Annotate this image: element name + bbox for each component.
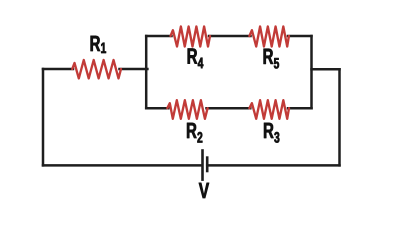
label R3 xyxy=(264,123,279,143)
wire R1 to left bus xyxy=(120,68,148,71)
wire left vertical xyxy=(42,69,45,165)
resistor R5 xyxy=(249,27,289,47)
wire bottom branch middle xyxy=(207,107,251,110)
wire left bus vertical xyxy=(145,36,148,108)
label R1 xyxy=(91,36,106,53)
wire bottom right segment xyxy=(207,164,339,167)
resistor R3 xyxy=(249,100,289,119)
wire bottom branch right xyxy=(288,107,312,110)
wire bottom branch left xyxy=(146,107,168,110)
label R5 xyxy=(264,49,279,69)
wire bottom left segment xyxy=(43,164,201,167)
resistor R2 xyxy=(167,100,207,119)
wire top branch left xyxy=(146,35,171,38)
battery V: short plate xyxy=(206,156,209,172)
wire right mid connector xyxy=(312,68,340,71)
wire top-left to R1 xyxy=(43,68,73,71)
label V xyxy=(199,183,209,198)
wire right vertical xyxy=(338,69,341,165)
label R2 xyxy=(187,123,202,143)
wire top branch right xyxy=(288,35,312,38)
wire right bus vertical xyxy=(310,36,313,108)
battery V: long plate xyxy=(201,149,204,181)
resistor R4 xyxy=(171,27,211,47)
wire top branch middle xyxy=(209,35,251,38)
resistor R1 xyxy=(72,60,121,78)
label R4 xyxy=(188,48,204,68)
